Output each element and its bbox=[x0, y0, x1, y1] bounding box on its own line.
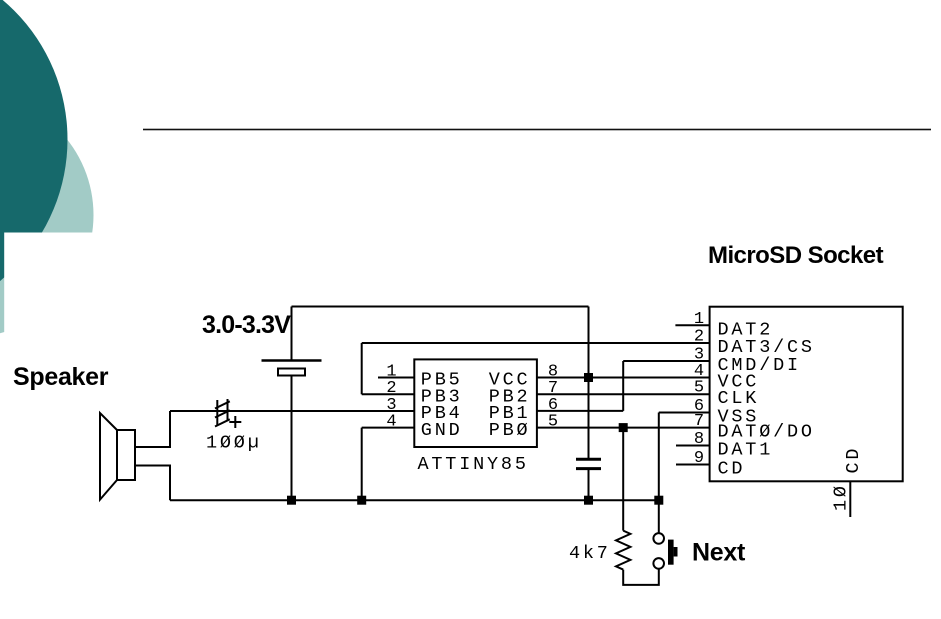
wire VCC drop to decoupling cap bbox=[588, 307, 590, 460]
svg-text:GND: GND bbox=[421, 420, 463, 441]
IC ATTINY85 bbox=[414, 359, 537, 447]
wire VSS to ground rail bbox=[659, 413, 710, 501]
wire ground rail to button top bbox=[658, 500, 660, 533]
svg-text:CD: CD bbox=[718, 459, 746, 480]
svg-text:Speaker: Speaker bbox=[13, 363, 109, 391]
svg-text:Next: Next bbox=[692, 539, 746, 567]
wire SD pin9 stub bbox=[676, 464, 710, 466]
resistor 4k7 bbox=[616, 531, 630, 570]
svg-text:2: 2 bbox=[694, 328, 704, 347]
svg-text:MicroSD Socket: MicroSD Socket bbox=[708, 242, 884, 269]
wire PB2 pin7 to CLK bbox=[537, 393, 710, 395]
pushbutton Next bbox=[653, 533, 677, 569]
capacitor C decoupling bbox=[576, 459, 601, 468]
battery 3.0-3.3V bbox=[262, 307, 322, 376]
svg-text:8: 8 bbox=[694, 430, 704, 449]
svg-text:1ØØµ: 1ØØµ bbox=[206, 433, 262, 454]
svg-text:7: 7 bbox=[694, 412, 704, 431]
svg-text:PBØ: PBØ bbox=[489, 420, 531, 441]
junction VCC pin8 bbox=[584, 373, 593, 382]
wire speaker plus to PB4 bbox=[170, 410, 414, 412]
wire speaker top terminal bbox=[135, 411, 170, 447]
wire VCC rail bbox=[292, 306, 589, 308]
svg-text:5: 5 bbox=[694, 379, 704, 398]
connector MicroSD socket bbox=[710, 307, 903, 482]
wire SD pin10 stub bbox=[849, 481, 851, 517]
capacitor 100u electrolytic bbox=[215, 399, 241, 428]
junction GND pin ground bbox=[357, 496, 366, 505]
svg-text:4k7: 4k7 bbox=[569, 543, 611, 564]
wire PB3 loop to DAT3/CS bbox=[362, 343, 710, 394]
junction PB0 branch bbox=[619, 423, 628, 432]
junction battery ground bbox=[287, 496, 296, 505]
wire resistor to button bottom bbox=[623, 569, 659, 585]
svg-text:3.0-3.3V: 3.0-3.3V bbox=[202, 311, 291, 339]
wire PB1 pin6 to CMD/DI bbox=[537, 361, 710, 411]
junction cap ground bbox=[584, 496, 593, 505]
svg-text:CD: CD bbox=[843, 446, 864, 474]
svg-text:4: 4 bbox=[386, 413, 396, 432]
svg-text:9: 9 bbox=[694, 449, 704, 468]
wire pin1 stub PB5 bbox=[378, 377, 414, 379]
wire PB0 pin5 to DAT0/DO bbox=[537, 427, 710, 429]
svg-text:1: 1 bbox=[694, 310, 704, 329]
junction button ground bbox=[654, 496, 663, 505]
wire SD pin1 stub bbox=[675, 324, 709, 326]
svg-text:1Ø: 1Ø bbox=[831, 483, 852, 511]
speaker LS bbox=[100, 413, 135, 500]
wire SD pin8 stub bbox=[676, 445, 710, 447]
svg-text:5: 5 bbox=[548, 413, 558, 432]
wire battery negative to ground rail bbox=[291, 376, 293, 501]
wire ground rail bbox=[170, 499, 659, 501]
wire decoupling cap to ground rail bbox=[588, 470, 590, 500]
wire VCC pin8 to SD VCC bbox=[537, 377, 710, 379]
wire PB0 branch to resistor bbox=[622, 428, 624, 531]
svg-text:DAT1: DAT1 bbox=[718, 439, 774, 460]
wire speaker bottom terminal bbox=[135, 466, 170, 501]
wire GND pin to ground rail bbox=[362, 428, 415, 501]
svg-text:ATTINY85: ATTINY85 bbox=[418, 454, 529, 475]
